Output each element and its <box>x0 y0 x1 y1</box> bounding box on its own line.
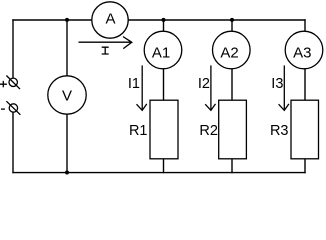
wire bottom rail <box>13 172 305 174</box>
terminal + input jack <box>6 76 20 90</box>
node junction top V <box>65 18 69 22</box>
svg-text:V: V <box>62 87 72 104</box>
resistor R2 <box>219 100 247 159</box>
wire branch1 top <box>163 20 165 31</box>
resistor R3 <box>291 100 319 159</box>
ammeter A3 <box>285 31 323 69</box>
current arrow I3 <box>279 65 289 110</box>
wire branch3 middle <box>304 69 306 100</box>
svg-text:I1: I1 <box>128 76 140 92</box>
plus sign label <box>0 81 7 87</box>
resistor R1 <box>150 100 178 159</box>
current arrow I1 <box>137 65 147 110</box>
wire branch3 top <box>304 20 306 31</box>
voltmeter V <box>48 76 86 114</box>
current arrow I2 <box>205 65 215 110</box>
wire top rail <box>13 19 305 21</box>
minus sign label <box>1 108 5 110</box>
ammeter A1 <box>144 31 182 69</box>
wire branch2 middle <box>231 69 233 100</box>
wire branch1 middle <box>163 69 165 100</box>
current symbol I (serif glyph) <box>102 47 109 54</box>
current arrow I (top) <box>79 37 132 49</box>
node junction top branch1 <box>162 18 166 22</box>
ammeter A2 <box>213 31 251 69</box>
wire branch2 bottom <box>231 159 233 173</box>
svg-text:R1: R1 <box>129 123 148 139</box>
svg-text:A: A <box>105 11 115 28</box>
svg-text:A2: A2 <box>220 45 238 62</box>
wire voltmeter branch upper <box>66 20 68 76</box>
svg-text:I3: I3 <box>271 76 283 92</box>
wire branch2 top <box>231 20 233 31</box>
wire branch3 bottom <box>304 159 306 173</box>
svg-text:I2: I2 <box>198 76 210 92</box>
svg-text:A3: A3 <box>293 45 311 62</box>
svg-text:R3: R3 <box>270 123 289 139</box>
node junction top branch2 <box>230 18 234 22</box>
wire left source lead lower <box>12 112 14 172</box>
wire left source lead upper <box>12 20 14 78</box>
node junction bottom V <box>65 171 69 175</box>
wire voltmeter branch lower <box>66 114 68 172</box>
svg-text:A1: A1 <box>152 45 170 62</box>
terminal - input jack <box>6 101 20 115</box>
svg-text:R2: R2 <box>199 123 218 139</box>
ammeter A <box>92 2 128 38</box>
wire branch1 bottom <box>163 159 165 173</box>
